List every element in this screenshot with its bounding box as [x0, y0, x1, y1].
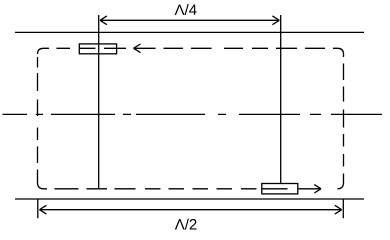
component: left feed element (rectangle)	[79, 44, 116, 54]
dashed cavity outline: bottom-right corner arc	[338, 183, 344, 189]
dashed cavity outline: top-right corner arc	[338, 48, 344, 54]
dashed cavity outline: bottom-left corner arc	[38, 183, 44, 189]
label: lambda/4	[175, 4, 197, 15]
wire: bottom conductor (solid horizontal line)	[15, 198, 364, 200]
arrow on bottom edge pointing right (current direction)	[298, 185, 322, 193]
wire: top conductor (solid horizontal line)	[15, 31, 364, 33]
node: horizontal center chain line (axis)	[3, 113, 383, 115]
dimension: bottom lambda/2 extension lines	[38, 199, 344, 218]
wire: right vertical feed line	[280, 15, 282, 184]
dashed cavity outline: bottom edge dashes	[44, 188, 288, 190]
dashed cavity outline: top edge dashes	[44, 47, 338, 49]
wire: left vertical feed line	[98, 15, 100, 189]
arrow on top edge pointing left (current direction)	[134, 44, 156, 53]
component: right feed element (rectangle)	[262, 184, 298, 194]
label: lambda/2	[175, 219, 197, 230]
dashed cavity outline: left edge dashes	[37, 57, 39, 183]
dimension: bottom lambda/2 line with arrowheads	[40, 205, 342, 214]
dashed cavity outline: top-left corner arc	[38, 48, 44, 54]
dashed cavity outline: right edge dashes	[343, 54, 345, 183]
dimension: top lambda/4 line with arrowheads	[100, 16, 279, 25]
